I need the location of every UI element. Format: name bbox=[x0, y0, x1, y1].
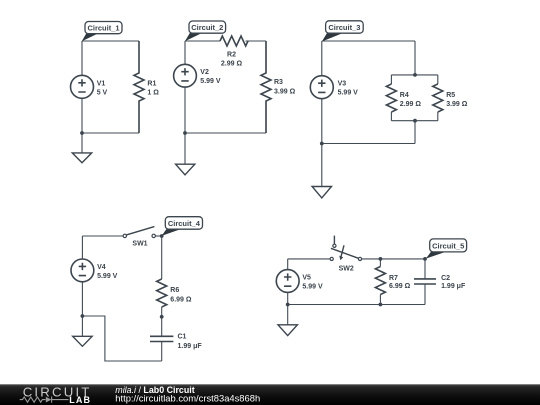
wire: Circuit_5 top left bbox=[288, 258, 330, 260]
wire: Circuit_3 stub from bottom rail bbox=[414, 121, 416, 144]
net label Circuit_5 bbox=[426, 239, 467, 259]
svg-text:SW2: SW2 bbox=[339, 265, 354, 272]
wire: Circuit_5 bottom bbox=[288, 304, 425, 306]
svg-text:R7: R7 bbox=[389, 275, 398, 282]
net label Circuit_4 bbox=[162, 217, 203, 236]
wire: Circuit_5 left branch upper bbox=[287, 259, 289, 270]
wire: Circuit_2 bottom bbox=[185, 132, 266, 134]
wire: Circuit_3 top bbox=[322, 40, 415, 42]
ground (Circuit_1) bbox=[72, 153, 91, 163]
wire: Circuit_2 left branch upper bbox=[184, 41, 186, 65]
wire: Circuit_4 top left bbox=[82, 235, 123, 237]
svg-text:5 V: 5 V bbox=[97, 89, 108, 96]
svg-text:6.99 Ω: 6.99 Ω bbox=[170, 296, 192, 303]
svg-text:1.99 μF: 1.99 μF bbox=[441, 283, 466, 290]
wire: Circuit_1 bottom bbox=[82, 132, 139, 134]
svg-text:2.99 Ω: 2.99 Ω bbox=[400, 101, 422, 108]
resistor R2 bbox=[220, 36, 248, 46]
node: Circuit_5 left bottom junction bbox=[286, 303, 290, 307]
CircuitLab logo schematic squiggle (resistor + diode) bbox=[20, 397, 69, 403]
svg-text:V5: V5 bbox=[302, 275, 311, 282]
wire: Circuit_4 switch to corner bbox=[155, 235, 161, 237]
wire: Circuit_2 ground stem bbox=[184, 133, 186, 164]
wire: Circuit_3 R4 leads bbox=[390, 75, 392, 121]
svg-text:3.99 Ω: 3.99 Ω bbox=[274, 88, 296, 95]
node: Circuit_5 C2 top corner bbox=[423, 257, 427, 261]
node: Circuit_2 bottom junction bbox=[183, 131, 187, 135]
wire: Circuit_5 R7 branch lower bbox=[379, 295, 381, 305]
svg-text:R3: R3 bbox=[274, 79, 283, 86]
svg-text:Circuit_2: Circuit_2 bbox=[191, 23, 223, 32]
svg-text:R5: R5 bbox=[446, 92, 455, 99]
svg-text:V3: V3 bbox=[338, 81, 347, 88]
wire: Circuit_3 stub to parallel top rail bbox=[414, 41, 416, 75]
wire: Circuit_4 left branch upper bbox=[81, 236, 83, 259]
ground (Circuit_2) bbox=[176, 164, 195, 175]
svg-text:2.99 Ω: 2.99 Ω bbox=[221, 60, 243, 67]
footer bar bbox=[0, 385, 540, 405]
svg-text:SW1: SW1 bbox=[132, 240, 147, 247]
svg-text:5.99 V: 5.99 V bbox=[200, 78, 221, 85]
svg-text:1.99 μF: 1.99 μF bbox=[178, 343, 203, 350]
svg-text:R2: R2 bbox=[227, 52, 236, 59]
node: Circuit_5 R7 bottom junction bbox=[379, 303, 383, 307]
voltage source V1 bbox=[71, 75, 94, 98]
wire: Circuit_2 right branch upper bbox=[265, 41, 267, 73]
svg-text:V2: V2 bbox=[200, 69, 209, 76]
wire: Circuit_4 bottom return bbox=[82, 316, 161, 361]
wire: Circuit_5 switch to R7 node bbox=[362, 258, 425, 260]
svg-text:R1: R1 bbox=[147, 80, 156, 87]
resistor R7 bbox=[375, 267, 385, 295]
switch SW2 bbox=[330, 236, 362, 261]
svg-text:1 Ω: 1 Ω bbox=[147, 90, 159, 97]
ground (Circuit_5) bbox=[278, 325, 297, 336]
node: Circuit_4 corner at label bbox=[160, 234, 164, 238]
svg-text:Circuit_4: Circuit_4 bbox=[168, 219, 201, 228]
node: Circuit_1 bottom junction bbox=[80, 131, 84, 135]
wire: Circuit_3 left branch upper bbox=[321, 41, 323, 76]
capacitor C1 bbox=[150, 336, 173, 341]
wire: Circuit_1 left branch upper bbox=[81, 41, 83, 75]
svg-text:R4: R4 bbox=[400, 92, 409, 99]
svg-text:5.99 V: 5.99 V bbox=[97, 273, 118, 280]
net label Circuit_1 bbox=[82, 22, 122, 42]
wire: Circuit_3 left branch lower bbox=[321, 99, 323, 144]
voltage source V5 bbox=[276, 270, 299, 293]
voltage source V3 bbox=[310, 76, 333, 99]
wire: Circuit_5 ground stem bbox=[287, 305, 289, 325]
wire: Circuit_3 ground stem bbox=[321, 144, 323, 187]
svg-text:V4: V4 bbox=[97, 264, 106, 271]
resistor R4 bbox=[386, 84, 396, 112]
net label Circuit_3 bbox=[322, 21, 363, 42]
svg-text:V1: V1 bbox=[97, 80, 106, 87]
wire: Circuit_4 R6 to C1 bbox=[161, 307, 163, 336]
node: Circuit_3 bottom junction bbox=[320, 142, 324, 146]
svg-text:C1: C1 bbox=[178, 334, 187, 341]
wire: Circuit_3 bottom bbox=[322, 143, 415, 145]
svg-text:R6: R6 bbox=[170, 287, 179, 294]
svg-text:C2: C2 bbox=[441, 275, 450, 282]
node: Circuit_4 left junction bbox=[81, 314, 85, 318]
node: Circuit_3 parallel bottom bbox=[413, 119, 417, 123]
wire: Circuit_2 right branch lower bbox=[265, 101, 267, 133]
wire: Circuit_3 parallel bottom rail bbox=[391, 120, 437, 122]
ground (Circuit_4) bbox=[73, 336, 92, 346]
wire: Circuit_3 parallel top rail bbox=[391, 74, 437, 76]
voltage source V2 bbox=[174, 64, 197, 87]
wire: Circuit_2 left branch lower bbox=[184, 87, 186, 133]
wire: Circuit_2 top right bbox=[246, 40, 267, 42]
wire: Circuit_5 left branch lower bbox=[287, 292, 289, 304]
ground (Circuit_3) bbox=[312, 187, 331, 198]
node: Circuit_4 R6-C1 junction bbox=[160, 315, 164, 319]
wire: Circuit_1 ground stem bbox=[81, 133, 83, 153]
wire: Circuit_5 C2 branch upper bbox=[424, 259, 426, 279]
wire: Circuit_4 right branch upper bbox=[161, 236, 163, 279]
wire: Circuit_4 C1 to bottom bbox=[161, 342, 163, 362]
svg-text:Circuit_1: Circuit_1 bbox=[87, 24, 119, 33]
wire: Circuit_3 R5 leads bbox=[437, 75, 439, 121]
svg-text:5.99 V: 5.99 V bbox=[302, 284, 323, 291]
wire: Circuit_5 C2 branch lower bbox=[424, 284, 426, 305]
wire: Circuit_1 top bbox=[82, 40, 139, 42]
node: Circuit_5 R7 top junction bbox=[379, 257, 383, 261]
wire: Circuit_5 R7 branch upper bbox=[379, 259, 381, 267]
resistor R3 bbox=[261, 41, 271, 133]
svg-text:3.99 Ω: 3.99 Ω bbox=[446, 101, 468, 108]
voltage source V4 bbox=[71, 259, 94, 282]
wire: Circuit_4 left branch lower bbox=[81, 282, 83, 316]
resistor R6 bbox=[157, 279, 167, 307]
node: Circuit_3 parallel top bbox=[413, 73, 417, 77]
svg-text:6.99 Ω: 6.99 Ω bbox=[389, 283, 411, 290]
resistor R5 bbox=[433, 84, 443, 112]
wire: Circuit_4 ground stem bbox=[81, 316, 83, 336]
net label Circuit_2 bbox=[185, 21, 226, 41]
svg-text:Circuit_3: Circuit_3 bbox=[328, 23, 360, 32]
svg-text:http://circuitlab.com/crst83a4: http://circuitlab.com/crst83a4s868h bbox=[115, 393, 260, 404]
svg-text:Circuit_5: Circuit_5 bbox=[432, 241, 464, 250]
resistor R1 bbox=[134, 41, 144, 133]
wire: Circuit_2 top left bbox=[185, 40, 220, 42]
switch SW1 bbox=[123, 227, 155, 238]
svg-text:5.99 V: 5.99 V bbox=[338, 90, 359, 97]
wire: Circuit_1 left branch lower bbox=[81, 98, 83, 133]
svg-text:LAB: LAB bbox=[69, 395, 91, 405]
capacitor C2 bbox=[414, 279, 436, 284]
